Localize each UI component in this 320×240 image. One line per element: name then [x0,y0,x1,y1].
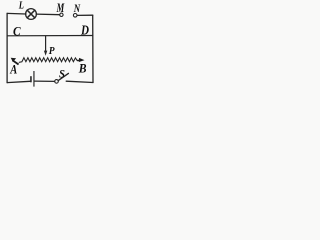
lamp L1 circle [26,9,37,20]
terminal M [60,13,63,16]
svg-text:P: P [49,46,55,57]
wire bottom-left to battery [7,81,30,82]
battery negative plate (short thick) [30,76,32,82]
wiper P arrowhead [44,51,47,56]
svg-text:A: A [9,63,17,77]
rheostat right arrow [77,58,85,62]
svg-text:M: M [56,1,65,15]
battery positive plate (long thin) [33,71,34,87]
rail C-D [7,35,93,37]
svg-text:D: D [80,23,89,38]
wiper P stem [45,36,47,51]
wire lamp to terminal M [36,13,59,16]
wire switch to bottom-right corner [66,81,93,82]
svg-text:N: N [73,1,81,15]
rheostat AB zigzag [19,58,77,63]
svg-text:B: B [78,61,87,75]
switch S pivot [55,80,59,84]
wire top-left segment [7,12,26,15]
lamp L1 cross [27,10,35,18]
svg-text:S: S [59,68,65,81]
terminal N [73,14,77,18]
wire battery to switch [35,80,55,82]
switch S lever [58,73,68,80]
wire right vertical [92,15,94,82]
rheostat left arrow [11,58,20,66]
wire N to top-right corner [77,14,93,16]
svg-text:L: L [18,0,24,12]
svg-text:C: C [13,25,21,39]
wire left vertical [6,13,8,82]
